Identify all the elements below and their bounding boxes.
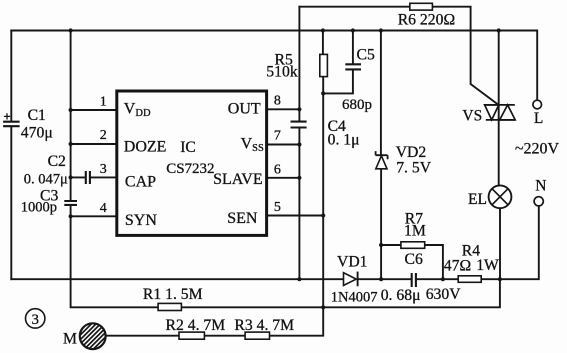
svg-text:1M: 1M: [404, 223, 426, 240]
svg-text:C6: C6: [405, 251, 423, 268]
svg-text:R1 1. 5M: R1 1. 5M: [143, 286, 203, 303]
svg-text:510k: 510k: [266, 64, 298, 81]
svg-text:OUT: OUT: [228, 100, 261, 117]
svg-text:DOZE: DOZE: [124, 138, 167, 155]
svg-text:6: 6: [274, 163, 281, 178]
svg-text:47Ω: 47Ω: [444, 257, 471, 274]
svg-text:1: 1: [100, 94, 107, 109]
svg-text:C5: C5: [357, 46, 375, 63]
svg-text:1000p: 1000p: [21, 199, 57, 215]
svg-text:L: L: [534, 110, 543, 127]
svg-text:VD1: VD1: [337, 254, 368, 271]
svg-text:1W: 1W: [476, 257, 499, 274]
svg-text:M: M: [63, 331, 77, 348]
svg-text:470μ: 470μ: [21, 125, 53, 142]
svg-text:3: 3: [100, 162, 107, 177]
svg-text:EL: EL: [468, 191, 487, 208]
svg-text:C2: C2: [48, 153, 66, 170]
svg-text:0. 047μ: 0. 047μ: [24, 171, 68, 187]
svg-text:CAP: CAP: [125, 174, 156, 191]
svg-text:630V: 630V: [426, 286, 462, 303]
svg-text:7: 7: [274, 129, 281, 144]
svg-text:0. 1μ: 0. 1μ: [328, 131, 360, 148]
svg-text:4: 4: [100, 201, 107, 216]
svg-text:680p: 680p: [342, 97, 372, 113]
svg-text:0. 68μ: 0. 68μ: [381, 287, 421, 304]
svg-text:~220V: ~220V: [515, 141, 560, 158]
svg-text:R3 4. 7M: R3 4. 7M: [234, 317, 294, 334]
svg-text:1N4007: 1N4007: [331, 289, 378, 305]
svg-text:8: 8: [274, 94, 281, 109]
svg-text:SLAVE: SLAVE: [213, 171, 263, 188]
svg-text:C1: C1: [28, 107, 46, 124]
svg-text:R6 220Ω: R6 220Ω: [398, 12, 455, 29]
svg-text:CS7232: CS7232: [166, 161, 214, 177]
svg-text:SYN: SYN: [125, 212, 157, 229]
svg-text:VD2: VD2: [396, 144, 427, 161]
svg-text:3: 3: [31, 312, 39, 328]
svg-text:R2 4. 7M: R2 4. 7M: [166, 317, 226, 334]
svg-text:N: N: [535, 178, 546, 195]
svg-text:VS: VS: [462, 108, 482, 125]
svg-text:2: 2: [100, 128, 107, 143]
svg-text:IC: IC: [180, 139, 196, 156]
svg-text:5: 5: [274, 200, 281, 215]
svg-text:SEN: SEN: [227, 210, 258, 227]
svg-text:7. 5V: 7. 5V: [396, 160, 432, 177]
